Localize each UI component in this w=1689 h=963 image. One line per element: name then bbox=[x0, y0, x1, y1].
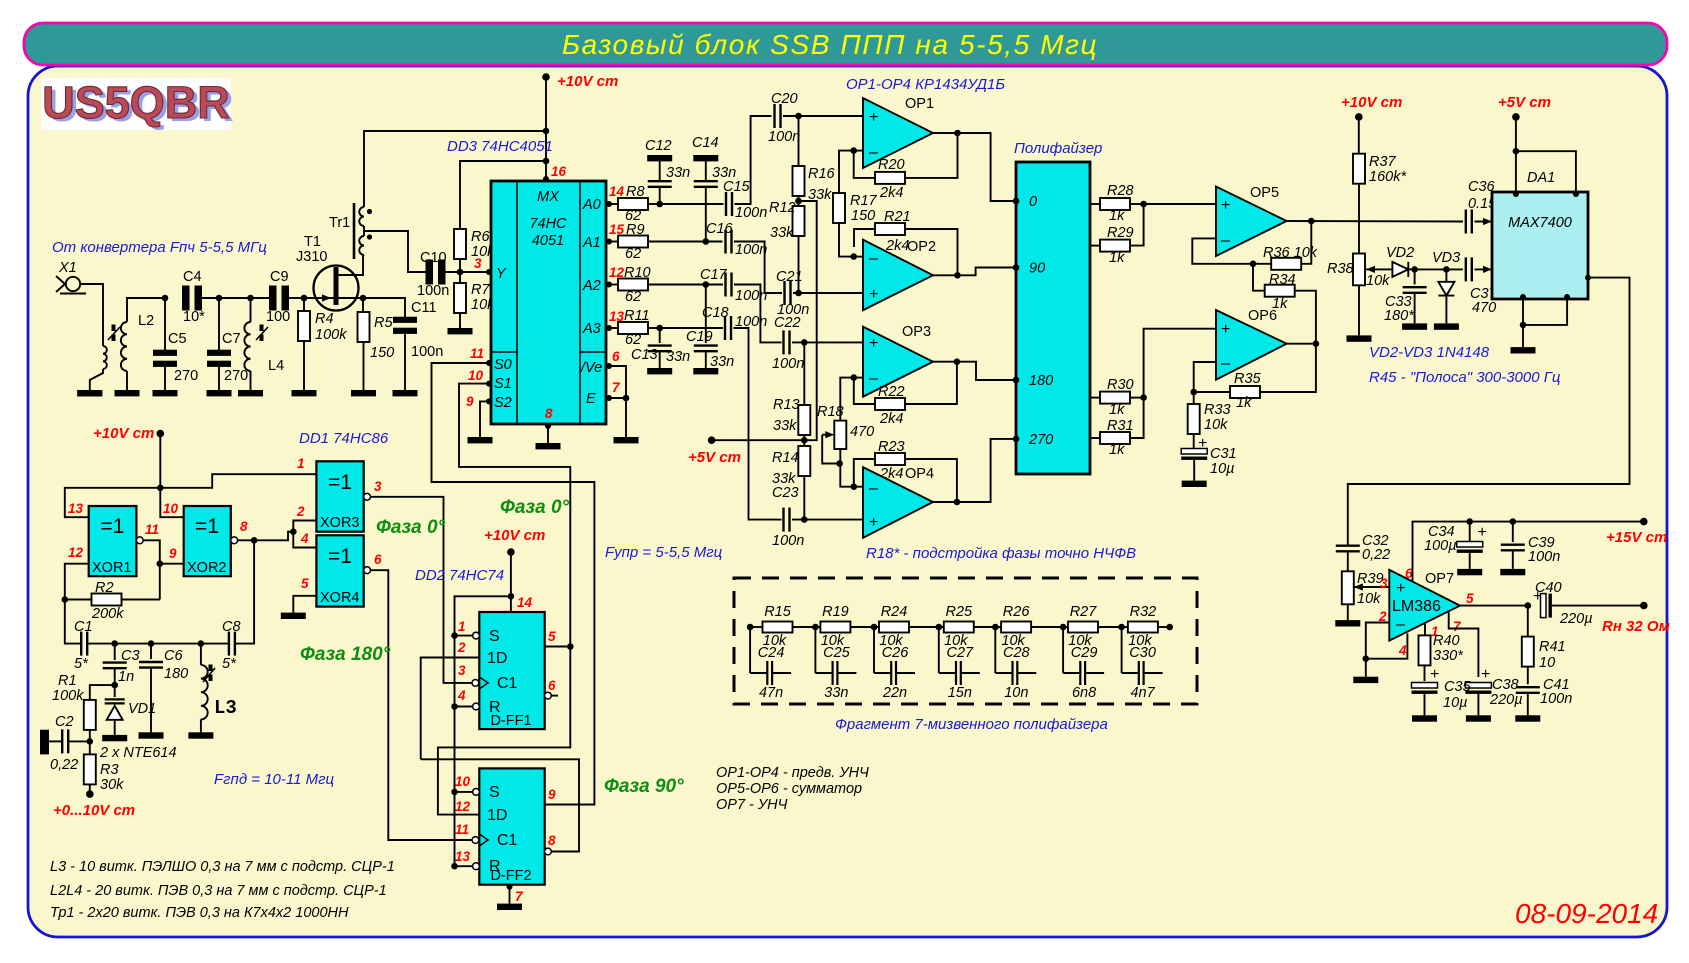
svg-text:14: 14 bbox=[517, 595, 533, 610]
svg-text:R3: R3 bbox=[100, 762, 119, 778]
wire OP1 out to polyphaser 0 bbox=[933, 133, 1016, 201]
node C8/XOR2out bbox=[251, 537, 258, 544]
svg-text:14: 14 bbox=[609, 184, 625, 199]
svg-text:4: 4 bbox=[457, 688, 466, 703]
svg-text:9: 9 bbox=[548, 787, 556, 802]
svg-text:3: 3 bbox=[374, 479, 382, 494]
capacitor C30 bbox=[1121, 627, 1123, 673]
svg-text:10*: 10* bbox=[183, 309, 205, 325]
FF1 S bubble bbox=[473, 632, 480, 639]
FF1 C1 bubble bbox=[472, 680, 479, 687]
svg-text:R35: R35 bbox=[1234, 371, 1262, 387]
wire to R26 bbox=[974, 626, 996, 628]
svg-text:D-FF2: D-FF2 bbox=[490, 868, 531, 884]
svg-text:ОР7 - УНЧ: ОР7 - УНЧ bbox=[716, 797, 788, 813]
svg-text:10µ: 10µ bbox=[1443, 695, 1467, 711]
svg-text:R19: R19 bbox=[822, 604, 849, 620]
wire to right terminal bbox=[1158, 626, 1170, 628]
svg-text:A3: A3 bbox=[582, 321, 601, 337]
svg-text:+15V ст: +15V ст bbox=[1606, 529, 1667, 546]
diode VD3 bbox=[1445, 269, 1447, 281]
svg-text:R26: R26 bbox=[1003, 604, 1031, 620]
op-amp OP6 bbox=[1216, 310, 1287, 380]
ground C19 bbox=[693, 368, 718, 374]
ground XOR4 pin5 bbox=[281, 613, 306, 619]
terminal +0-10V bbox=[86, 790, 94, 798]
resistor R21 bbox=[854, 229, 876, 247]
svg-text:R37: R37 bbox=[1369, 154, 1397, 170]
ground L4 bbox=[238, 390, 263, 396]
svg-text:100n: 100n bbox=[1540, 691, 1572, 707]
terminal Rn bbox=[1640, 602, 1648, 610]
svg-text:30k: 30k bbox=[100, 777, 124, 793]
node pin14 bbox=[508, 593, 515, 600]
svg-text:10k: 10k bbox=[1357, 591, 1381, 607]
pin 0 bbox=[1013, 198, 1020, 205]
svg-text:+0...10V ст: +0...10V ст bbox=[53, 802, 135, 819]
node R1/R3 bbox=[87, 738, 94, 745]
capacitor C21 bbox=[783, 281, 785, 305]
FF2 S bubble bbox=[473, 789, 480, 796]
capacitor C23 bbox=[782, 508, 784, 532]
svg-text:100n: 100n bbox=[735, 242, 767, 258]
XOR gate XOR4 bbox=[316, 535, 363, 606]
svg-text:16: 16 bbox=[551, 164, 567, 179]
svg-text:100µ: 100µ bbox=[1424, 538, 1457, 554]
resistor R15 bbox=[750, 626, 762, 628]
node R32 left bbox=[1118, 624, 1125, 631]
resistor R17 bbox=[839, 151, 854, 193]
pin A0 bbox=[606, 201, 612, 207]
node A3/C13 bbox=[648, 327, 660, 329]
svg-text:C3: C3 bbox=[121, 648, 140, 664]
svg-text:C23: C23 bbox=[772, 485, 799, 501]
wire pin6 to +15V bbox=[1413, 522, 1644, 582]
svg-text:L2L4 - 20 витк. ПЭВ 0,3 на 7 м: L2L4 - 20 витк. ПЭВ 0,3 на 7 мм с подстр… bbox=[50, 883, 387, 899]
svg-text:6: 6 bbox=[612, 349, 620, 364]
svg-text:33n: 33n bbox=[712, 165, 736, 181]
terminal +15V bbox=[1640, 518, 1648, 526]
wire C15 up to C20 bbox=[735, 116, 772, 204]
resistor R34 bbox=[1253, 264, 1265, 291]
XOR1 output bubble bbox=[136, 537, 143, 544]
svg-text:OP7: OP7 bbox=[1425, 571, 1454, 587]
FF2 pin7 ground bbox=[507, 884, 513, 890]
svg-text:1: 1 bbox=[297, 456, 305, 471]
svg-text:C38: C38 bbox=[1492, 677, 1519, 693]
wire S/R tie top bbox=[455, 596, 511, 866]
wire MAX gnd pins bbox=[1522, 299, 1524, 347]
svg-text:R41: R41 bbox=[1539, 639, 1566, 655]
svg-text:–: – bbox=[869, 250, 878, 267]
svg-text:5*: 5* bbox=[74, 656, 89, 672]
svg-text:C16: C16 bbox=[706, 221, 734, 237]
ground C39 bbox=[1500, 569, 1525, 575]
ground FF2 bbox=[497, 904, 522, 910]
svg-text:R45 - "Полоса" 300-3000 Гц: R45 - "Полоса" 300-3000 Гц bbox=[1369, 369, 1561, 386]
resistor R37 bbox=[1353, 154, 1365, 184]
wire C22 to OP3+ bbox=[792, 341, 863, 343]
capacitor C7 bbox=[218, 298, 220, 350]
node C22/R13 bbox=[801, 339, 808, 346]
svg-text:C18: C18 bbox=[702, 305, 729, 321]
pin 180 bbox=[1013, 377, 1020, 384]
capacitor C12 bbox=[659, 161, 661, 181]
ground C11 bbox=[393, 390, 418, 396]
svg-text:10k: 10k bbox=[1366, 273, 1390, 289]
node OP3 out bbox=[954, 358, 961, 365]
wire L3 to C8 bbox=[201, 643, 228, 645]
capacitor C31 bbox=[1181, 449, 1207, 455]
wire L4 to C9 bbox=[251, 297, 270, 299]
ground VD3 bbox=[1434, 323, 1459, 329]
ground C35 bbox=[1412, 715, 1437, 721]
resistor R10 bbox=[606, 284, 618, 286]
svg-text:33k: 33k bbox=[770, 225, 794, 241]
pin /Ve bbox=[606, 363, 612, 369]
node rail R6 bbox=[543, 158, 550, 165]
wire L2 bottom to ground bbox=[126, 371, 128, 390]
svg-text:OP5: OP5 bbox=[1250, 185, 1279, 201]
svg-text:DD3 74HC4051: DD3 74HC4051 bbox=[447, 138, 553, 155]
svg-text:C10: C10 bbox=[420, 250, 447, 266]
node C39 bbox=[1510, 518, 1517, 525]
svg-text:150: 150 bbox=[370, 345, 394, 361]
svg-text:MAX7400: MAX7400 bbox=[1508, 215, 1572, 231]
wire C9 to gate node bbox=[289, 297, 304, 299]
pin S2 bbox=[486, 398, 492, 404]
inductor L3 bbox=[200, 644, 202, 665]
svg-text:C28: C28 bbox=[1003, 645, 1030, 661]
wire X1 to primary coil bbox=[80, 284, 103, 346]
connector X1 bbox=[66, 277, 80, 291]
ground C6 bbox=[139, 732, 164, 738]
capacitor C2 bbox=[61, 729, 63, 753]
pin dots MAX bottom bbox=[1520, 294, 1526, 300]
svg-text:160k*: 160k* bbox=[1369, 169, 1407, 185]
wire XOR1 out bbox=[143, 540, 184, 563]
svg-text:R28: R28 bbox=[1107, 183, 1134, 199]
svg-text:R21: R21 bbox=[884, 209, 911, 225]
capacitor C37 bbox=[1465, 257, 1467, 281]
svg-text:C25: C25 bbox=[823, 645, 851, 661]
svg-text:S0: S0 bbox=[494, 357, 512, 373]
resistor R16 bbox=[798, 116, 800, 166]
svg-text:180: 180 bbox=[164, 666, 188, 682]
svg-text:R40: R40 bbox=[1433, 633, 1460, 649]
svg-text:220µ: 220µ bbox=[1489, 692, 1523, 708]
svg-text:1k: 1k bbox=[1109, 402, 1125, 418]
wire VD3 to C37 bbox=[1446, 268, 1462, 270]
IC DA1 MAX7400 bbox=[1492, 192, 1588, 299]
svg-text:R1: R1 bbox=[58, 673, 77, 689]
svg-text:1D: 1D bbox=[487, 650, 507, 667]
svg-text:От конвертера Fпч 5-5,5 МГц: От конвертера Fпч 5-5,5 МГц bbox=[52, 239, 267, 256]
svg-text:470: 470 bbox=[850, 424, 874, 440]
svg-text:9: 9 bbox=[466, 394, 474, 409]
svg-text:+10V ст: +10V ст bbox=[484, 527, 545, 544]
power +5V terminal bbox=[708, 436, 716, 444]
svg-text:+: + bbox=[1221, 197, 1230, 214]
resistor R7 bbox=[459, 272, 461, 284]
svg-text:C8: C8 bbox=[222, 619, 241, 635]
resistor R31 bbox=[1090, 437, 1100, 439]
svg-text:Фаза 180°: Фаза 180° bbox=[300, 644, 391, 665]
svg-text:+: + bbox=[869, 335, 878, 352]
capacitor C33 bbox=[1414, 269, 1416, 284]
svg-text:+10V ст: +10V ст bbox=[557, 73, 618, 90]
ground C7 bbox=[207, 390, 232, 396]
wire C8 up bbox=[236, 540, 254, 643]
svg-text:8: 8 bbox=[240, 519, 248, 534]
wire C23 to OP4+ bbox=[792, 519, 863, 521]
ground S2 bbox=[468, 437, 493, 443]
svg-text:R13: R13 bbox=[773, 397, 800, 413]
pin E bbox=[606, 395, 612, 401]
svg-text:VD1: VD1 bbox=[128, 701, 156, 717]
resistor R13 bbox=[803, 342, 805, 405]
L2 trimmer arrow bbox=[108, 327, 120, 340]
svg-text:100k: 100k bbox=[315, 327, 347, 343]
wire S2 to ground bbox=[480, 401, 489, 437]
node rail Tr1 bbox=[543, 128, 550, 135]
resistor R23 bbox=[854, 459, 875, 487]
wire C21 to OP2+ bbox=[793, 292, 863, 294]
wire XOR2 out bbox=[238, 532, 294, 541]
resistor R40 bbox=[1424, 624, 1426, 636]
node L3 bbox=[198, 640, 205, 647]
node OP2 out bbox=[954, 272, 961, 279]
capacitor C8 bbox=[228, 632, 230, 656]
svg-text:US5QBR: US5QBR bbox=[42, 77, 230, 128]
svg-text:2: 2 bbox=[457, 640, 466, 655]
pin S0 bbox=[486, 360, 492, 366]
node MAX gnd bbox=[1520, 322, 1527, 329]
wire to R27 bbox=[1031, 626, 1063, 628]
wire C2 to node bbox=[69, 740, 90, 742]
capacitor C3 bbox=[114, 644, 116, 660]
ground C38 bbox=[1466, 715, 1491, 721]
svg-text:R9: R9 bbox=[626, 222, 645, 238]
ground MAX bbox=[1511, 347, 1536, 353]
FF2 /Q wire pin8 to FF1 1D bbox=[545, 848, 552, 855]
wire C37 to MAX bbox=[1475, 268, 1493, 270]
svg-text:J310: J310 bbox=[296, 249, 327, 265]
svg-text:0,22: 0,22 bbox=[50, 757, 78, 773]
wire pin7 bbox=[1449, 612, 1479, 677]
svg-text:C6: C6 bbox=[164, 648, 183, 664]
resistor R22 bbox=[854, 378, 875, 404]
wire to XOR3 pin2 bbox=[293, 521, 316, 532]
svg-text:MX: MX bbox=[537, 189, 560, 205]
svg-text:270: 270 bbox=[174, 368, 198, 384]
wire XOR4 pin5 gnd bbox=[293, 596, 316, 613]
flip-flop D-FF2 bbox=[479, 768, 544, 884]
capacitor C39 bbox=[1512, 522, 1514, 542]
wire XOR3 out to FF1 C1 bbox=[371, 497, 473, 683]
svg-text:Fгпд = 10-11 Мгц: Fгпд = 10-11 Мгц bbox=[214, 771, 335, 788]
coil primary winding of input transformer bbox=[103, 346, 107, 369]
op-amp OP1 bbox=[863, 98, 933, 168]
XOR4 output bubble bbox=[364, 567, 371, 574]
node OP4 minus bbox=[851, 483, 858, 490]
capacitor C17 bbox=[724, 273, 726, 297]
flip-flop D-FF1 bbox=[479, 612, 544, 729]
svg-text:C27: C27 bbox=[946, 645, 974, 661]
svg-text:C40: C40 bbox=[1535, 580, 1562, 596]
svg-text:R22: R22 bbox=[878, 384, 905, 400]
svg-text:10: 10 bbox=[1539, 655, 1555, 671]
svg-text:–: – bbox=[1396, 616, 1405, 633]
svg-text:C24: C24 bbox=[758, 645, 785, 661]
node VD1 bbox=[111, 682, 118, 689]
svg-text:S: S bbox=[489, 784, 500, 801]
node FF1 Q bbox=[567, 643, 574, 650]
svg-text:C20: C20 bbox=[771, 91, 798, 107]
svg-text:Фаза 0°: Фаза 0° bbox=[376, 517, 446, 538]
node R28/R29 bbox=[1140, 201, 1147, 208]
svg-text:+: + bbox=[869, 514, 878, 531]
pin S1 bbox=[486, 381, 492, 387]
wire C4 to C7 node bbox=[202, 297, 219, 299]
svg-text:100n: 100n bbox=[1528, 549, 1560, 565]
capacitor C4 bbox=[182, 286, 190, 311]
svg-text:XOR4: XOR4 bbox=[320, 590, 360, 606]
resistor R28 bbox=[1090, 203, 1100, 205]
svg-text:1: 1 bbox=[458, 619, 466, 634]
node OP1 minus bbox=[850, 147, 857, 154]
wire to XOR4 pin4 bbox=[293, 532, 316, 548]
pin dot 14 bbox=[508, 611, 514, 617]
node +5V branch bbox=[1513, 148, 1520, 155]
svg-text:Фрагмент 7-мизвенного полифайз: Фрагмент 7-мизвенного полифайзера bbox=[835, 716, 1108, 733]
svg-text:C1: C1 bbox=[497, 675, 518, 692]
wire +5V to top right pin bbox=[1516, 151, 1576, 192]
node C20/R16 bbox=[795, 113, 802, 120]
svg-text:R38: R38 bbox=[1327, 261, 1354, 277]
XOR gate XOR3 bbox=[316, 461, 363, 531]
svg-text:Фаза 0°: Фаза 0° bbox=[500, 497, 570, 518]
power +10V DD2 bbox=[507, 548, 515, 556]
svg-text:C22: C22 bbox=[774, 315, 801, 331]
node C40/R41 bbox=[1525, 602, 1532, 609]
wire to R25 bbox=[909, 626, 939, 628]
svg-text:+: + bbox=[1396, 580, 1405, 597]
node OP1 out bbox=[954, 130, 961, 137]
svg-text:100n: 100n bbox=[772, 356, 804, 372]
svg-text:5*: 5* bbox=[222, 656, 237, 672]
wire OP5 minus bbox=[1192, 238, 1253, 263]
svg-text:A0: A0 bbox=[582, 197, 601, 213]
XOR3 output bubble bbox=[364, 493, 371, 500]
svg-text:R12: R12 bbox=[769, 200, 796, 216]
wire FF1 Q to FF2 1D bbox=[438, 647, 570, 815]
svg-text:C9: C9 bbox=[270, 269, 289, 285]
wire to R19 bbox=[793, 626, 816, 628]
svg-text:5: 5 bbox=[548, 629, 556, 644]
resistor R9 bbox=[606, 241, 618, 243]
svg-text:4n7: 4n7 bbox=[1130, 685, 1155, 701]
svg-text:33n: 33n bbox=[666, 165, 690, 181]
wire OP3 out to polyphaser 180 bbox=[933, 362, 1016, 380]
svg-text:ОР1-ОР4 КР1434УД1Б: ОР1-ОР4 КР1434УД1Б bbox=[846, 76, 1005, 93]
wire C16 to C21 bbox=[734, 242, 782, 294]
wire to XOR1 pin13 bbox=[65, 488, 161, 517]
svg-text:1D: 1D bbox=[487, 807, 507, 824]
svg-text:2k4: 2k4 bbox=[885, 238, 909, 254]
node OP5 out bbox=[1308, 218, 1315, 225]
svg-text:Тр1 - 2х20 витк. ПЭВ 0,3 на К7: Тр1 - 2х20 витк. ПЭВ 0,3 на К7х4х2 1000Н… bbox=[50, 905, 349, 921]
FF2 C1 bubble bbox=[472, 837, 479, 844]
wire S1 net to DD2 pin5 bbox=[459, 384, 570, 647]
resistor R25 bbox=[939, 626, 944, 628]
trimmer R38 bbox=[1353, 254, 1365, 286]
wire C6 to L3 bbox=[151, 643, 201, 645]
svg-text:+10V ст: +10V ст bbox=[1341, 94, 1402, 111]
transistor T1 J310 bbox=[314, 266, 359, 311]
svg-text:C29: C29 bbox=[1071, 645, 1098, 661]
capacitor C18 bbox=[724, 316, 726, 340]
svg-text:T1: T1 bbox=[304, 234, 321, 250]
wire to OP5+ bbox=[1144, 203, 1216, 205]
node /Ve-E bbox=[623, 395, 630, 402]
node XOR2 out to pins bbox=[290, 528, 297, 535]
wire Tr1 top to +10V rail bbox=[364, 131, 546, 207]
wire C36 to MAX bbox=[1475, 221, 1493, 223]
svg-text:VD2-VD3 1N4148: VD2-VD3 1N4148 bbox=[1369, 344, 1490, 361]
resistor R24 bbox=[874, 626, 879, 628]
svg-text:S: S bbox=[489, 628, 500, 645]
node R36/R34 bbox=[1250, 261, 1257, 268]
svg-text:10: 10 bbox=[163, 501, 179, 516]
svg-text:ОР1-ОР4 - предв. УНЧ: ОР1-ОР4 - предв. УНЧ bbox=[716, 765, 869, 781]
svg-text:62: 62 bbox=[625, 246, 641, 262]
wire node to R2 bbox=[159, 564, 161, 600]
resistor R36 bbox=[1253, 263, 1272, 265]
svg-text:33k: 33k bbox=[773, 418, 797, 434]
op-amp OP3 bbox=[863, 327, 933, 397]
svg-text:R33: R33 bbox=[1204, 402, 1231, 418]
wire OP5 out to C36 bbox=[1287, 220, 1463, 223]
wire C1 to C3 bbox=[88, 643, 115, 645]
ground C5 bbox=[153, 390, 178, 396]
svg-text:1k: 1k bbox=[1109, 208, 1125, 224]
capacitor C28 bbox=[994, 627, 996, 673]
svg-text:R14: R14 bbox=[772, 450, 799, 466]
svg-text:C30: C30 bbox=[1129, 645, 1156, 661]
wire C20 to OP1+ bbox=[783, 115, 863, 117]
XOR gate XOR1 bbox=[89, 506, 137, 576]
wire VD1 to R1 bbox=[90, 685, 115, 700]
svg-text:C11: C11 bbox=[411, 300, 437, 316]
FF1 1D wire bbox=[421, 658, 480, 760]
wire VD2 to VD3 bbox=[1415, 268, 1447, 270]
wire A1 row bbox=[648, 241, 723, 243]
title bar bbox=[24, 23, 1667, 65]
capacitor C20 bbox=[773, 104, 775, 128]
ground C13 bbox=[647, 368, 672, 374]
svg-text:DD1 74HC86: DD1 74HC86 bbox=[299, 430, 389, 447]
node +10V split bbox=[157, 485, 164, 492]
capacitor C13 bbox=[659, 328, 661, 343]
wire to OP6+ bbox=[1144, 329, 1216, 398]
svg-text:C2: C2 bbox=[55, 714, 74, 730]
svg-text:C7: C7 bbox=[222, 331, 241, 347]
svg-text:OP3: OP3 bbox=[902, 324, 931, 340]
svg-text:10k: 10k bbox=[1204, 417, 1228, 433]
svg-text:C35: C35 bbox=[1444, 679, 1472, 695]
svg-text:R10: R10 bbox=[624, 265, 651, 281]
